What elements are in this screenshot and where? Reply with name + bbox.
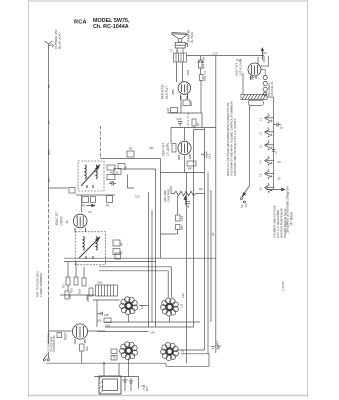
capacitor C41 <box>111 356 117 361</box>
svg-text:POSITION. LINE VOLTAGE 117V. A: POSITION. LINE VOLTAGE 117V. A.C. SUPPLY <box>233 118 237 176</box>
svg-text:R16: R16 <box>189 100 193 106</box>
svg-text:R7: R7 <box>196 122 200 126</box>
wire: IF feed dash-dot <box>100 126 102 159</box>
wire below C15b <box>177 196 179 215</box>
bus h271 <box>99 270 168 272</box>
svg-text:L10: L10 <box>140 304 144 309</box>
svg-text:VOLTOHMYST AND WITH VOLUME CON: VOLTOHMYST AND WITH VOLUME CONTROL AT MI… <box>230 101 234 176</box>
rail x160 <box>160 159 162 258</box>
wire C8 drop <box>128 175 135 189</box>
wire grid antenna row <box>49 188 116 212</box>
svg-text:R19: R19 <box>78 289 82 294</box>
bottom bus h366 <box>166 365 209 367</box>
title block: chassis line <box>93 24 129 30</box>
svg-text:6SK7-GT: 6SK7-GT <box>162 143 166 156</box>
svg-text:R10: R10 <box>180 224 184 230</box>
battery pack inner <box>103 379 118 391</box>
svg-text:C6: C6 <box>124 166 128 170</box>
bottom bus step <box>165 363 167 366</box>
capacitor C10 <box>115 253 121 259</box>
volume control R9 <box>174 191 196 205</box>
trimmer L2 <box>265 127 274 136</box>
resistor R6 <box>172 144 176 153</box>
svg-text:6SA7-GT: 6SA7-GT <box>55 212 59 225</box>
svg-text:R5: R5 <box>129 147 133 151</box>
title block: model line <box>93 18 130 24</box>
svg-text:C42: C42 <box>181 293 185 298</box>
trimmer L4 <box>265 156 274 165</box>
terminal strip <box>241 95 267 100</box>
resistor R17 <box>66 277 70 285</box>
svg-text:1ST AUDIO: 1ST AUDIO <box>239 59 243 76</box>
svg-text:1ST: 1ST <box>149 146 154 150</box>
svg-text:-8V: -8V <box>65 220 69 224</box>
wire tube V3 top feeds <box>258 56 269 66</box>
wires bottom-left cluster <box>60 262 95 303</box>
svg-text:C:POWER LINE VOLTAGE: C:POWER LINE VOLTAGE <box>273 205 277 238</box>
svg-text:R14 470K: R14 470K <box>202 56 206 69</box>
bottom bus h363 <box>46 362 166 364</box>
svg-text:L2: L2 <box>259 132 263 135</box>
svg-text:C1: C1 <box>47 84 51 88</box>
on-off switch S1 <box>43 352 49 361</box>
note block lower right <box>273 205 288 238</box>
svg-text:CONTROL: CONTROL <box>167 188 171 202</box>
battery hatch <box>99 376 103 394</box>
wire h193 <box>194 129 205 131</box>
bus vertical x211 <box>210 190 212 322</box>
wiper arrow <box>266 188 285 191</box>
wire battery top rail <box>94 375 139 377</box>
capacitor C9 <box>113 249 120 255</box>
svg-text:BLK: BLK <box>47 150 51 155</box>
wire: antenna lead down left side <box>48 51 50 344</box>
svg-text:13: 13 <box>244 203 248 207</box>
page right edge <box>307 0 309 397</box>
grid cap G1 <box>263 75 267 79</box>
title block: RCA logo text <box>74 20 87 26</box>
svg-text:15: 15 <box>280 126 284 130</box>
svg-text:6K6-GT/G: 6K6-GT/G <box>161 84 165 99</box>
resistor R22 <box>89 288 93 296</box>
svg-text:C24: C24 <box>186 69 190 75</box>
oscillator coil L8 <box>96 285 118 296</box>
trimmer rail <box>273 97 275 190</box>
svg-text:C12: C12 <box>208 153 212 159</box>
svg-text:T2: T2 <box>170 48 174 52</box>
svg-text:C23 .01: C23 .01 <box>203 71 207 81</box>
coil can D <box>161 343 179 361</box>
node ticks on antenna lead <box>47 84 51 182</box>
rail x152 <box>151 210 153 322</box>
svg-text:R18: R18 <box>70 288 74 293</box>
capacitor C15b <box>176 215 181 221</box>
svg-text:R1: R1 <box>82 204 86 208</box>
junction dot <box>103 362 105 364</box>
svg-text:L12: L12 <box>180 303 184 308</box>
resistor R1 <box>82 197 89 203</box>
coil can B <box>161 298 179 316</box>
bus vertical x204 <box>204 128 206 351</box>
svg-text:100: 100 <box>97 319 102 323</box>
svg-text:24: 24 <box>278 160 282 164</box>
resistor R5 <box>127 151 134 157</box>
tube V2 6SK7 <box>178 141 191 160</box>
svg-text:RL-70C1: RL-70C1 <box>190 31 194 43</box>
op tube V4 6K6 <box>178 82 191 100</box>
svg-text:MODEL 5W75,: MODEL 5W75, <box>93 18 130 24</box>
bus vertical x186 <box>186 172 188 363</box>
svg-text:CONTROL R9: CONTROL R9 <box>52 335 56 352</box>
coil can A <box>120 297 138 315</box>
wire below V2 <box>160 126 205 172</box>
coil can C <box>120 342 138 360</box>
trimmer L1 <box>265 113 274 122</box>
svg-text:Ch. RC-1044A: Ch. RC-1044A <box>93 24 129 30</box>
capacitor C26 <box>171 108 178 113</box>
bus h261 <box>64 261 156 263</box>
svg-text:6SS7: 6SS7 <box>64 332 68 340</box>
battery cell marks <box>123 380 134 383</box>
wire can A drop <box>128 314 130 322</box>
bus h258 <box>64 257 216 259</box>
svg-text:C20 R13 .01: C20 R13 .01 <box>270 81 274 96</box>
tube V1 6SA7 <box>73 214 87 232</box>
wire can B feeds <box>167 271 169 298</box>
svg-text:OUTPUT: OUTPUT <box>165 86 169 99</box>
capacitor C12 <box>201 152 207 159</box>
capacitor C30 <box>65 291 69 299</box>
bus vertical x208 <box>207 172 209 353</box>
page bottom edge <box>29 395 308 397</box>
svg-text:R8: R8 <box>188 167 192 171</box>
rail x148 <box>148 192 150 327</box>
coil windings in T3 <box>79 237 100 260</box>
wire: horizontal IF bus <box>101 158 161 160</box>
svg-text:C5: C5 <box>88 210 92 214</box>
svg-text:L4: L4 <box>259 160 263 163</box>
svg-text:I.F. AMPL: I.F. AMPL <box>166 142 170 156</box>
trimmer L6 <box>265 183 274 192</box>
wire tube V2 top <box>171 128 216 144</box>
page top edge <box>29 0 308 2</box>
wires between cans <box>49 306 205 351</box>
wire can B drop <box>169 316 171 322</box>
resistor R4 <box>113 240 120 246</box>
svg-text:50: 50 <box>116 170 119 174</box>
tube V5 1A7 <box>72 324 87 344</box>
resistor R20 <box>80 344 85 351</box>
svg-text:L11: L11 <box>112 355 116 360</box>
hook mark <box>142 385 145 388</box>
svg-text:R9: R9 <box>199 187 203 191</box>
wire osc drop <box>96 300 98 327</box>
resistor R50 <box>114 169 121 175</box>
page left edge <box>28 0 30 397</box>
svg-text:7.5V: 7.5V <box>142 385 146 391</box>
svg-text:TUNER TERMINAL: TUNER TERMINAL <box>39 272 43 297</box>
svg-text:R3: R3 <box>106 204 110 208</box>
battery pack outer <box>99 376 121 394</box>
resistor R18 <box>74 277 78 285</box>
capacitor C25 <box>178 122 183 127</box>
svg-text:90V: 90V <box>145 386 149 391</box>
wire below output tube <box>168 96 202 113</box>
wire: transformer to output tube <box>177 62 183 82</box>
wire tube V3 left pin down <box>242 73 244 95</box>
coil windings in T1 <box>81 165 100 188</box>
grid cap G3 <box>263 87 267 91</box>
bus vertical x216 <box>215 56 217 353</box>
resistor R10 <box>176 225 181 230</box>
resistor R16 below tube <box>183 100 190 106</box>
capacitor C23 <box>200 75 204 81</box>
IF transformer T1 shield <box>78 161 104 191</box>
svg-text:C38: C38 <box>104 313 109 317</box>
caption: simplified diagram <box>286 186 294 233</box>
resistor R2 <box>107 165 115 170</box>
svg-text:C30: C30 <box>68 294 72 299</box>
speaker frame <box>175 42 187 48</box>
svg-text:R15: R15 <box>262 51 267 55</box>
capacitor C40 <box>111 349 117 354</box>
svg-text:C23: C23 <box>213 52 218 56</box>
note text column <box>226 101 237 176</box>
wire battery leads <box>104 363 131 391</box>
svg-text:L3: L3 <box>259 145 263 148</box>
svg-text:CONV.: CONV. <box>60 215 64 225</box>
capacitor C38 <box>97 312 103 315</box>
svg-text:A-1096: A-1096 <box>281 281 285 291</box>
svg-text:285V: 285V <box>171 89 175 95</box>
capacitor C7 <box>107 175 115 180</box>
capacitor C6 <box>118 164 125 170</box>
svg-text:L1: L1 <box>259 118 263 121</box>
capacitor C8 <box>109 182 116 186</box>
svg-text:R2: R2 <box>110 171 114 175</box>
svg-text:C2: C2 <box>47 178 51 182</box>
wire dash drop <box>187 113 189 128</box>
antenna symbol <box>45 41 54 51</box>
bus h267 <box>99 266 171 268</box>
resistor R8 <box>187 161 196 166</box>
IF transformer T3 shield <box>75 232 105 265</box>
svg-text:R17: R17 <box>62 283 66 288</box>
capacitor C3 <box>69 188 75 194</box>
resistor R19 <box>82 278 86 286</box>
switch S3 <box>241 186 250 203</box>
svg-text:LS: LS <box>176 51 179 53</box>
svg-text:+B: +B <box>211 232 215 236</box>
wire below V5 <box>81 351 83 363</box>
grid cap G4 <box>263 92 266 95</box>
svg-text:"A" Band: "A" Band <box>290 211 294 226</box>
wire can D to bus <box>181 354 209 367</box>
wire: switch feed line <box>249 105 251 186</box>
resistor R21 <box>104 318 111 323</box>
svg-text:C41: C41 <box>150 331 155 335</box>
svg-text:NOTE: ALL VOLTAGES MEASURED WI: NOTE: ALL VOLTAGES MEASURED WITH CHANALY… <box>226 103 230 176</box>
resistor R14 <box>199 60 203 68</box>
capacitor C4 <box>91 197 96 203</box>
resistor R3 <box>107 196 113 203</box>
svg-text:117V. A.C. MEASURED: 117V. A.C. MEASURED <box>276 210 280 238</box>
wires around volume control <box>171 186 205 194</box>
rail x155 <box>155 169 157 327</box>
wire osc arrow <box>86 204 95 206</box>
svg-text:C25: C25 <box>177 117 182 121</box>
wire strip to rail <box>267 96 274 98</box>
svg-text:OSC: OSC <box>97 281 103 285</box>
output transformer T2 winding <box>174 48 187 62</box>
wire grid caps <box>261 70 265 76</box>
svg-text:L6: L6 <box>259 187 263 190</box>
svg-text:IN RADIO POSITION OF: IN RADIO POSITION OF <box>280 208 284 238</box>
resistor R7 <box>192 119 196 126</box>
arrow B plus tick <box>261 48 263 56</box>
wire osc to can A <box>93 299 120 301</box>
wire R14-C23 <box>200 56 202 60</box>
bus vertical x193 <box>193 130 195 328</box>
svg-text:C9: C9 <box>120 251 124 255</box>
svg-text:25: 25 <box>278 177 282 181</box>
wire rail feed <box>123 168 156 170</box>
grid cap G2 <box>263 81 267 85</box>
svg-text:L5: L5 <box>259 173 263 176</box>
svg-text:R22: R22 <box>85 295 89 300</box>
trimmer L3 <box>265 140 274 149</box>
trimmer L5 <box>265 169 274 178</box>
svg-text:A BATT: A BATT <box>216 340 220 350</box>
svg-text:R4: R4 <box>120 242 124 246</box>
speaker LS1 cone <box>171 33 187 43</box>
battery cell marks right <box>211 346 221 349</box>
svg-text:PHONO SWITCH S2-S3: PHONO SWITCH S2-S3 <box>283 208 287 238</box>
svg-text:R20: R20 <box>85 346 89 351</box>
wire: B+ bus from transformer right <box>187 55 265 57</box>
capacitor C44 <box>57 333 62 338</box>
wire V2 plate <box>201 113 203 128</box>
wire cell lead 2 <box>138 376 140 388</box>
capacitor on rail <box>272 150 277 154</box>
svg-text:C16: C16 <box>135 195 140 199</box>
phono jack plate <box>248 100 263 105</box>
svg-text:C15: C15 <box>180 215 184 221</box>
svg-text:RCA: RCA <box>74 20 87 26</box>
wire can C to battery <box>128 358 130 377</box>
svg-text:L1: L1 <box>47 120 51 124</box>
svg-text:C26: C26 <box>166 107 170 113</box>
capacitor C14 <box>187 202 191 209</box>
capacitor C15 <box>274 123 282 127</box>
tube V3 6SQ7 <box>248 63 261 80</box>
svg-text:BLUE LEAD: BLUE LEAD <box>58 32 62 49</box>
tube V3 pin marks <box>250 74 254 79</box>
